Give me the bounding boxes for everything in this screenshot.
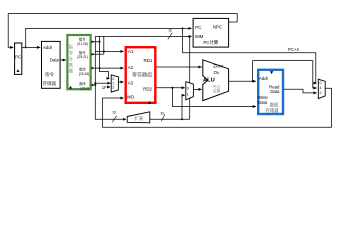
svg-text:Data: Data <box>270 89 280 94</box>
svg-text:IMM: IMM <box>195 34 204 39</box>
svg-text:1: 1 <box>320 86 322 90</box>
svg-text:32: 32 <box>160 111 164 115</box>
svg-text:存储器: 存储器 <box>43 80 57 87</box>
svg-text:指令: 指令 <box>79 81 86 86</box>
svg-text:Addr: Addr <box>259 76 269 81</box>
svg-text:16: 16 <box>112 111 116 115</box>
svg-text:分: 分 <box>68 55 73 62</box>
svg-text:令: 令 <box>68 49 73 56</box>
svg-text:RD1: RD1 <box>144 58 153 63</box>
svg-text:PC+4: PC+4 <box>288 47 299 52</box>
svg-text:NPC: NPC <box>213 24 222 29</box>
svg-text:A3: A3 <box>128 80 134 85</box>
svg-text:ALU: ALU <box>203 78 215 84</box>
svg-text:存储器: 存储器 <box>266 107 280 114</box>
svg-text:A2: A2 <box>128 65 134 70</box>
svg-text:[20:16]: [20:16] <box>79 72 89 76</box>
svg-text:离: 离 <box>68 61 73 68</box>
svg-text:Ov: Ov <box>213 70 220 75</box>
svg-text:16: 16 <box>168 29 172 33</box>
svg-text:2: 2 <box>112 85 114 89</box>
svg-text:2: 2 <box>320 91 322 95</box>
svg-text:运算: 运算 <box>213 88 221 93</box>
svg-text:PC: PC <box>15 55 21 60</box>
svg-text:Zero: Zero <box>213 63 223 69</box>
svg-text:RD2: RD2 <box>143 87 152 92</box>
svg-text:扩展: 扩展 <box>134 115 143 122</box>
svg-text:1: 1 <box>187 92 189 96</box>
svg-text:指: 指 <box>68 43 73 50</box>
svg-text:Data: Data <box>258 100 268 105</box>
svg-text:WD: WD <box>127 95 134 100</box>
svg-text:Data: Data <box>50 57 60 62</box>
svg-text:0: 0 <box>320 81 322 85</box>
svg-text:[25:21]: [25:21] <box>78 55 88 59</box>
svg-text:Addr: Addr <box>43 45 53 50</box>
svg-text:[31:26]: [31:26] <box>78 42 88 46</box>
svg-text:1F: 1F <box>102 85 107 90</box>
svg-text:指令: 指令 <box>79 67 86 72</box>
svg-text:寄存器组: 寄存器组 <box>132 71 152 78</box>
svg-text:0: 0 <box>187 86 189 90</box>
svg-text:A1: A1 <box>128 49 134 54</box>
svg-text:PC计算: PC计算 <box>203 39 218 46</box>
svg-text:指令: 指令 <box>79 36 86 41</box>
svg-text:[15:0]: [15:0] <box>81 86 89 90</box>
svg-text:指令: 指令 <box>45 71 54 78</box>
svg-text:PC: PC <box>195 25 201 30</box>
